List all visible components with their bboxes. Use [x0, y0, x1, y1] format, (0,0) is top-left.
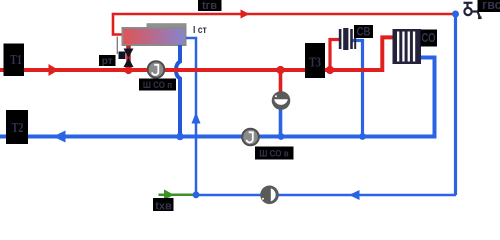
- svg-text:рт: рт: [102, 56, 113, 67]
- svg-text:Т3: Т3: [309, 54, 321, 70]
- svg-text:tгв: tгв: [202, 0, 217, 12]
- svg-text:I ст: I ст: [193, 24, 207, 35]
- svg-text:Ш СО п: Ш СО п: [143, 79, 172, 90]
- svg-text:СО: СО: [421, 32, 435, 46]
- svg-text:Ш СО в: Ш СО в: [259, 148, 289, 159]
- svg-text:гвс: гвс: [482, 0, 500, 12]
- svg-text:СВ: СВ: [357, 26, 371, 39]
- svg-text:Т1: Т1: [10, 51, 22, 67]
- svg-text:Т2: Т2: [12, 119, 24, 135]
- svg-text:tхв: tхв: [155, 201, 172, 212]
